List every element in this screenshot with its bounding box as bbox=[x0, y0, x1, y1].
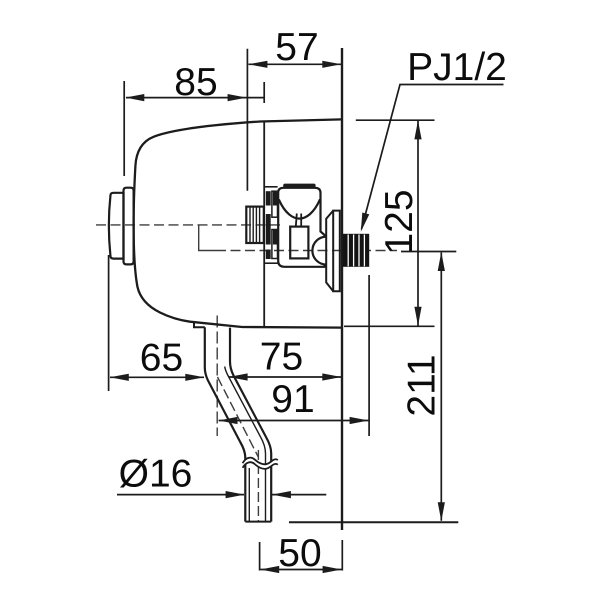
svg-text:125: 125 bbox=[378, 189, 421, 254]
dim 57 bbox=[247, 49, 341, 191]
svg-text:75: 75 bbox=[260, 336, 303, 379]
pipe inner wall right bbox=[225, 367, 266, 522]
top button bar bbox=[283, 184, 315, 188]
plate latch lower bbox=[273, 230, 278, 245]
spud thread PJ1/2 bbox=[343, 234, 369, 267]
dim 91 bbox=[219, 275, 370, 436]
dim 211 bbox=[401, 252, 456, 521]
centerline pipe bend bbox=[218, 377, 259, 457]
pipe break squiggle bbox=[243, 458, 278, 469]
plate latch lower outline bbox=[272, 230, 278, 259]
inlet thread adapter bbox=[246, 207, 263, 243]
coupling dome bbox=[312, 237, 326, 265]
housing outline bbox=[278, 188, 326, 267]
wall escutcheon flange bbox=[326, 211, 340, 292]
cover plate edge bbox=[264, 121, 277, 327]
plate latch upper bbox=[273, 191, 278, 205]
centerline pipe upper bbox=[216, 316, 218, 437]
svg-text:91: 91 bbox=[271, 378, 314, 421]
dim 75 bbox=[229, 376, 342, 378]
dim 50 bbox=[260, 540, 343, 571]
svg-text:85: 85 bbox=[174, 61, 217, 104]
dim 85 bbox=[124, 81, 264, 176]
centerline jog bbox=[199, 225, 216, 251]
valve body outline bbox=[134, 119, 342, 327]
plate bar segment 2 bbox=[266, 214, 271, 245]
pipe inner wall left bbox=[248, 468, 250, 522]
plate rung top bbox=[264, 186, 277, 188]
wall line bbox=[341, 48, 343, 530]
svg-text:211: 211 bbox=[401, 354, 444, 416]
outlet connector step bbox=[194, 322, 205, 328]
svg-text:50: 50 bbox=[278, 532, 321, 575]
svg-text:PJ1/2: PJ1/2 bbox=[407, 46, 507, 89]
label PJ1/2 leader bbox=[362, 85, 504, 230]
actuator housing bbox=[278, 184, 326, 267]
diaphragm bowl bbox=[279, 199, 320, 218]
pipe end cap bbox=[245, 521, 271, 523]
centerline pipe lower bbox=[257, 450, 259, 522]
end cap outer bbox=[109, 193, 124, 259]
centerline upper axis bbox=[96, 225, 397, 522]
pipe left wall bbox=[205, 327, 246, 521]
svg-text:57: 57 bbox=[275, 26, 318, 69]
dim 65 bbox=[109, 255, 204, 391]
svg-text:65: 65 bbox=[140, 337, 183, 380]
plate bar segment 1 bbox=[266, 191, 271, 205]
dim 125 bbox=[344, 120, 435, 326]
stem bbox=[296, 214, 301, 227]
dim diameter 16 bbox=[117, 494, 326, 496]
pipe right wall bbox=[230, 328, 271, 522]
plate bar segment 3 bbox=[266, 250, 271, 260]
pendant block bbox=[290, 227, 308, 259]
plate latch upper outline bbox=[272, 191, 278, 217]
centerline lower axis bbox=[216, 250, 397, 252]
svg-text:Ø16: Ø16 bbox=[119, 453, 193, 496]
plate rung bottom bbox=[264, 262, 277, 264]
floor line bbox=[289, 521, 458, 523]
end cap inner ring bbox=[124, 188, 134, 265]
